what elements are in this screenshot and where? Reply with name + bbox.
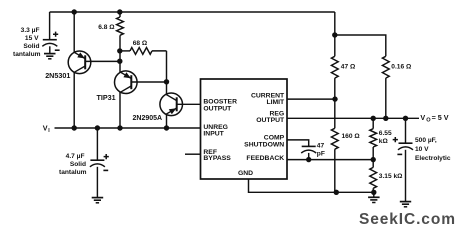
wire REF BYPASS stub (185, 153, 201, 155)
label R6 value (379, 130, 392, 145)
label pin GND (238, 170, 253, 177)
resistor R7 3.15k (370, 160, 377, 193)
ground divider (368, 192, 380, 202)
svg-text:15 V: 15 V (25, 35, 39, 42)
svg-text:V: V (43, 124, 48, 133)
label C1 value (13, 27, 41, 58)
label 2N5301 (45, 71, 70, 80)
transistor Q1 2N5301 (68, 51, 91, 74)
resistor R2 68ohm (120, 48, 167, 82)
svg-text:10 V: 10 V (415, 146, 429, 153)
node R1-R2 (117, 48, 122, 53)
wire Q1 emitter (73, 12, 75, 52)
svg-text:500 µF,: 500 µF, (415, 137, 437, 144)
wire comp shutdown (287, 140, 309, 147)
svg-text:OUTPUT: OUTPUT (256, 117, 285, 124)
node rail-Q2c (117, 125, 122, 130)
wire VO line (287, 117, 419, 119)
svg-text:INPUT: INPUT (203, 131, 224, 138)
svg-text:47 Ω: 47 Ω (341, 64, 356, 71)
node rail-Q3e (164, 125, 169, 130)
wire rail corner down (334, 12, 336, 35)
wire Q3 emitter (166, 114, 168, 128)
label TIP31 (97, 93, 116, 102)
label pin BOOSTER OUTPUT (203, 99, 237, 113)
node VO-R4 (383, 116, 388, 121)
node rail-Q1c (72, 125, 77, 130)
node R2-Q2base-Q3 (164, 79, 169, 84)
label pin REG OUTPUT (256, 111, 285, 125)
svg-text:0.16 Ω: 0.16 Ω (391, 64, 412, 71)
svg-text:2N2905A: 2N2905A (133, 115, 163, 122)
transistor Q2 TIP31 (115, 71, 138, 94)
resistor R4 0.16ohm wire (335, 35, 386, 56)
node C3-feedback (306, 157, 311, 162)
node VO-C4 (403, 116, 408, 121)
label pin CURRENT LIMIT (251, 93, 285, 107)
label R7 value (379, 173, 403, 180)
svg-text:47: 47 (317, 142, 325, 149)
wire Q3 base (177, 103, 201, 105)
label C4 value (415, 137, 451, 162)
wire gnd return (249, 179, 374, 192)
node gnd-R5 (334, 190, 339, 195)
svg-text:V: V (420, 113, 425, 122)
label 2N2905A (133, 115, 163, 122)
resistor R6 6.55k (370, 118, 377, 159)
node gnd-R7 (371, 190, 376, 195)
svg-text:tantalum: tantalum (59, 169, 87, 176)
svg-text:SHUTDOWN: SHUTDOWN (244, 141, 284, 148)
resistor R1 6.8ohm (117, 12, 124, 72)
svg-text:BYPASS: BYPASS (203, 155, 231, 162)
svg-text:LIMIT: LIMIT (266, 99, 285, 106)
wire Q3 collector (166, 82, 168, 95)
svg-text:2N5301: 2N5301 (45, 71, 70, 80)
wire C1 to rail (49, 12, 51, 40)
svg-text:GND: GND (238, 170, 253, 177)
label R4 value (391, 64, 412, 71)
label R5 value (342, 133, 361, 140)
label R2 value (133, 40, 148, 47)
svg-text:= 5 V: = 5 V (432, 113, 449, 122)
wire Q2 collector (119, 92, 121, 128)
svg-text:tantalum: tantalum (13, 51, 41, 58)
svg-text:3.3 µF: 3.3 µF (21, 27, 40, 34)
capacitor C2 4.7uF (90, 128, 109, 203)
label C2 value (59, 153, 87, 176)
op-amp U1 regulator box (201, 79, 288, 179)
node rail-C2 (95, 125, 100, 130)
svg-text:pF: pF (317, 150, 325, 157)
svg-text:Solid: Solid (23, 43, 39, 50)
wire Q1 base (85, 60, 120, 62)
resistor R5 160ohm (331, 99, 338, 192)
svg-text:I: I (48, 128, 50, 134)
svg-text:SeekIC.com: SeekIC.com (359, 211, 456, 228)
wire Q1 collector (73, 72, 75, 128)
svg-text:BOOSTER: BOOSTER (203, 99, 237, 106)
label watermark (359, 211, 456, 228)
svg-text:kΩ: kΩ (379, 138, 389, 145)
capacitor C1 3.3uF (42, 32, 59, 59)
wire Q2 base (131, 81, 166, 83)
wire current limit (287, 98, 335, 100)
svg-text:Solid: Solid (70, 161, 86, 168)
svg-text:3.15 kΩ: 3.15 kΩ (379, 173, 403, 180)
svg-text:TIP31: TIP31 (97, 93, 116, 102)
wire top rail (50, 11, 335, 13)
transistor Q3 2N2905A (160, 93, 183, 116)
svg-text:160 Ω: 160 Ω (342, 133, 361, 140)
node rail-R1 (117, 9, 122, 14)
wire VI rail (55, 127, 201, 129)
svg-text:FEEDBACK: FEEDBACK (246, 155, 284, 162)
label R1 value (98, 24, 115, 31)
node rail-Q1 (72, 9, 77, 14)
resistor R3 47ohm (331, 35, 338, 99)
label pin REF BYPASS (203, 149, 231, 162)
label pin UNREG INPUT (203, 124, 228, 138)
label VO (420, 113, 448, 124)
capacitor C3 47pF (301, 146, 316, 159)
capacitor C4 500uF (393, 118, 413, 207)
svg-text:4.7 µF: 4.7 µF (66, 153, 85, 160)
label pin FEEDBACK (246, 155, 284, 162)
svg-text:6.8 Ω: 6.8 Ω (98, 24, 115, 31)
svg-text:6.55: 6.55 (379, 130, 392, 137)
label pin COMP SHUTDOWN (244, 135, 284, 149)
node top branch (332, 32, 337, 37)
svg-text:68 Ω: 68 Ω (133, 40, 148, 47)
node feedback-divider (371, 157, 376, 162)
label C3 value (317, 142, 325, 157)
wire feedback (287, 159, 373, 161)
label R3 value (341, 64, 356, 71)
resistor R4 0.16ohm (382, 56, 389, 118)
label VI (43, 124, 51, 135)
svg-text:OUTPUT: OUTPUT (203, 106, 232, 113)
svg-text:O: O (426, 117, 431, 123)
node VO-R6 (371, 116, 376, 121)
svg-text:Electrolytic: Electrolytic (415, 155, 451, 162)
node Q1base-Q2 (117, 59, 122, 64)
node current-limit-R3 (332, 96, 337, 101)
